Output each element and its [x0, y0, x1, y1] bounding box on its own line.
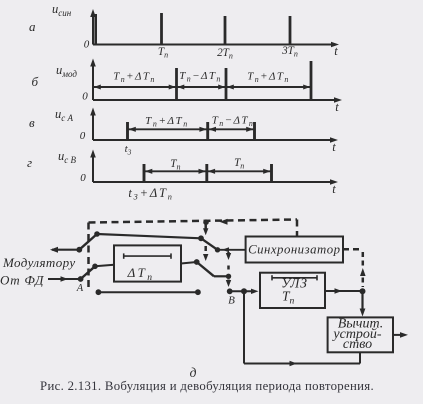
svg-text:а: а [29, 19, 36, 34]
svg-text:t: t [334, 44, 338, 58]
svg-text:Тп−ΔТп: Тп−ΔТп [212, 115, 254, 129]
svg-text:t: t [332, 140, 336, 154]
svg-text:г: г [27, 155, 32, 170]
svg-text:0: 0 [80, 172, 86, 184]
svg-text:Синхронизатор: Синхронизатор [248, 243, 341, 257]
svg-text:ство: ство [343, 337, 372, 352]
svg-text:От ФД: От ФД [0, 273, 44, 288]
svg-text:t: t [332, 182, 336, 196]
svg-text:t: t [335, 100, 339, 114]
svg-text:0: 0 [82, 91, 88, 103]
svg-text:В: В [228, 295, 235, 307]
svg-text:Тп+ΔТп: Тп+ΔТп [113, 71, 155, 85]
svg-text:Тп+ΔТп: Тп+ΔТп [145, 115, 189, 129]
svg-text:в: в [29, 115, 35, 130]
svg-text:Рис. 2.131. Вобуляция и девобу: Рис. 2.131. Вобуляция и девобуляция пери… [40, 379, 374, 393]
svg-text:д: д [190, 365, 197, 380]
svg-text:Модулятору: Модулятору [2, 255, 76, 270]
svg-text:Тп+ΔТп: Тп+ΔТп [247, 71, 289, 85]
svg-text:А: А [76, 283, 84, 294]
svg-text:Тп−ΔТп: Тп−ΔТп [179, 70, 221, 84]
svg-text:б: б [32, 74, 39, 89]
svg-text:0: 0 [80, 130, 86, 142]
svg-text:0: 0 [84, 39, 90, 51]
